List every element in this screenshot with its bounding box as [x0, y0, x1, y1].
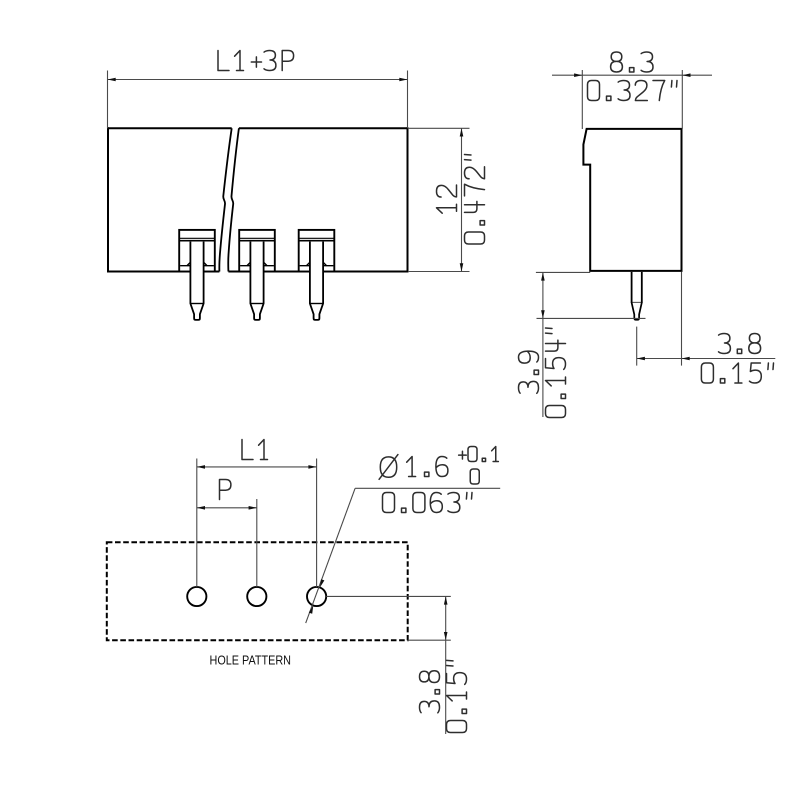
dimension 12 / 0.472"	[408, 128, 485, 271]
hole 2	[247, 587, 266, 606]
dimension 8.3 / 0.327"	[552, 52, 712, 129]
pin (side view)	[632, 272, 642, 320]
front view body	[108, 127, 408, 272]
break line left	[219, 128, 231, 271]
dimension L1+3P	[108, 51, 408, 129]
side view body	[583, 129, 681, 271]
svg-text:HOLE PATTERN: HOLE PATTERN	[210, 654, 292, 668]
dimension 3.8 / 0.15" (hole offset)	[326, 596, 466, 734]
pin 2 (front view)	[239, 230, 275, 320]
dimension 3.9 / 0.154"	[519, 272, 646, 417]
hole 1	[187, 587, 206, 606]
dimension 3.8 / 0.15" (side view)	[637, 272, 776, 383]
leader and label dia 1.6 +0.1/0 , 0.063"	[306, 447, 501, 624]
hole pattern dashed outline	[107, 542, 408, 640]
hole 3	[307, 587, 326, 606]
break line right	[228, 128, 239, 271]
pin 1 (front view)	[179, 230, 215, 320]
dimension L1 (hole pitch overall)	[197, 440, 317, 587]
dimension P (pitch)	[197, 480, 257, 587]
pin 3 (front view)	[299, 230, 335, 320]
